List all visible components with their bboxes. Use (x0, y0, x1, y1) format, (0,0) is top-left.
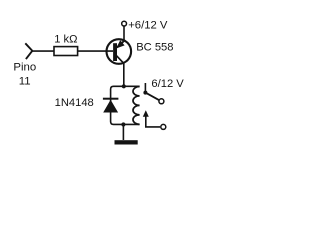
terminal +6/12 V open circle (122, 21, 127, 26)
svg-text:6/12 V: 6/12 V (151, 78, 184, 90)
wire: emitter up to +V terminal (123, 26, 125, 41)
relay contact: common lead (144, 83, 146, 92)
svg-text:11: 11 (19, 76, 31, 88)
junction node A (122, 84, 126, 88)
svg-text:1 kΩ: 1 kΩ (54, 33, 77, 45)
connector Pino 11 input symbol (25, 43, 32, 59)
svg-text:1N4148: 1N4148 (55, 97, 94, 109)
relay contact terminal (lower open circle) (161, 124, 166, 129)
wire: relay/diode loop (top rail, left branch, bottom rail) (111, 86, 140, 124)
transistor Q1 BC 558 (PNP) (107, 39, 132, 64)
resistor R1 1 kΩ (54, 47, 78, 56)
wire: collector down to node A (123, 63, 125, 87)
relay contact terminal (upper open circle) (159, 99, 164, 104)
svg-text:+6/12 V: +6/12 V (128, 20, 168, 32)
wire: connector to resistor (32, 50, 54, 52)
wire: resistor to transistor base (78, 50, 113, 52)
svg-text:Pino: Pino (13, 62, 36, 74)
wire: actuator to lower terminal (146, 116, 160, 127)
relay actuator arrow (143, 110, 149, 117)
ground (115, 140, 138, 144)
relay contact pivot dot (143, 91, 147, 95)
relay contact movable arm (145, 93, 159, 101)
svg-text:BC 558: BC 558 (136, 41, 173, 53)
junction node B (bottom) (121, 122, 125, 126)
relay coil K1 (133, 87, 140, 125)
diode D1 1N4148 (103, 99, 119, 113)
wire: node B to ground (122, 125, 124, 141)
